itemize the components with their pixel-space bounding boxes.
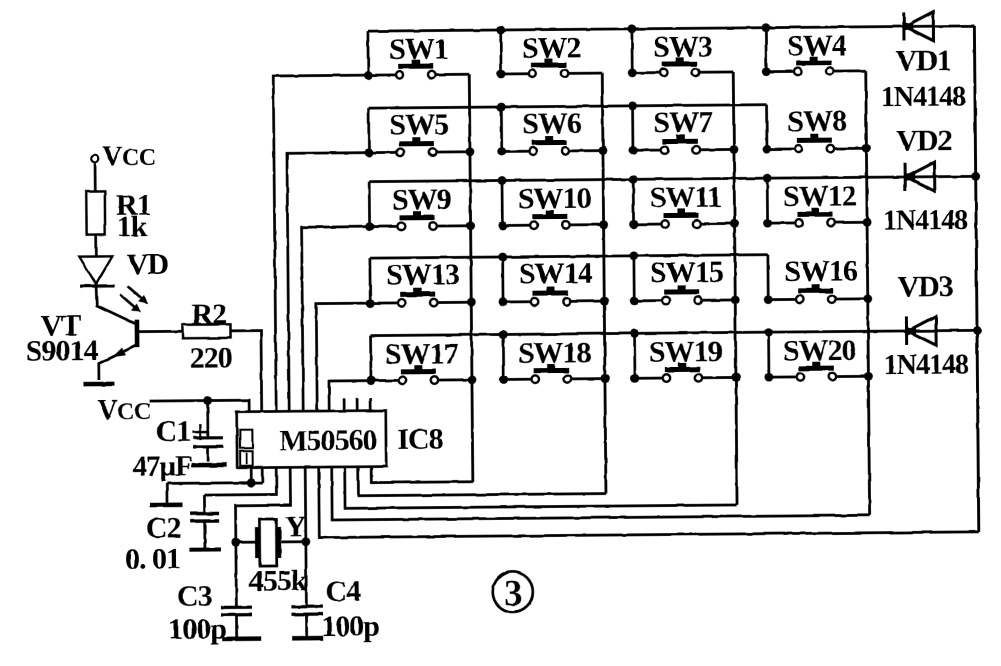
svg-text:R2: R2: [191, 298, 226, 331]
svg-text:C2: C2: [146, 511, 181, 544]
switch SW12: [766, 178, 769, 223]
svg-text:47µF: 47µF: [132, 450, 192, 483]
op-amp/encoder IC U8 body M50560: [237, 411, 386, 468]
IC8 top pin stub 1: [343, 398, 346, 410]
node Vcc/C1 junction: [203, 396, 212, 405]
svg-text:SW1: SW1: [389, 32, 448, 66]
svg-text:C1: C1: [155, 415, 190, 448]
svg-text:SW15: SW15: [650, 255, 723, 289]
svg-text:VCC: VCC: [102, 141, 156, 172]
resistor R2: [182, 324, 230, 338]
crystal Y left plate: [255, 527, 260, 558]
ground (emitter): [83, 382, 114, 387]
junction dots (matrix): [364, 71, 373, 80]
wire ground rail: [167, 481, 263, 485]
wire IC8 pin to crystal left: [235, 467, 291, 542]
svg-text:SW20: SW20: [783, 334, 856, 368]
wire column 1 vertical: [469, 74, 473, 481]
svg-text:VD3: VD3: [897, 270, 953, 303]
svg-text:SW7: SW7: [653, 105, 713, 139]
svg-text:1N4148: 1N4148: [883, 205, 968, 237]
switch SW13: [369, 258, 372, 303]
crystal Y body: [259, 519, 276, 566]
svg-text:SW8: SW8: [787, 104, 846, 138]
capacitor C2 plates: [190, 512, 219, 516]
wire row 5 select to IC8: [329, 381, 371, 411]
svg-text:SW12: SW12: [783, 179, 856, 213]
svg-text:0. 01: 0. 01: [125, 542, 180, 575]
wire R2 to IC8 pin: [230, 331, 261, 412]
svg-text:1N4148: 1N4148: [884, 349, 969, 381]
svg-text:SW16: SW16: [784, 254, 858, 288]
capacitor C3 plates: [221, 606, 252, 609]
IC8 left edge pin box 1: [240, 430, 253, 448]
svg-text:SW14: SW14: [519, 257, 593, 291]
switch SW1: [367, 31, 370, 75]
svg-text:455k: 455k: [249, 564, 308, 598]
node crystal left junction: [231, 538, 240, 547]
svg-text:3: 3: [504, 573, 522, 614]
LED emission arrow 1: [127, 286, 145, 302]
capacitor C1 lead lower: [207, 447, 210, 462]
svg-text:VD2: VD2: [896, 124, 952, 157]
diode VD2: [904, 163, 907, 191]
ground (IC8): [150, 503, 182, 508]
LED VD cathode bar: [80, 284, 114, 288]
capacitor C4 stub: [305, 614, 308, 636]
switch SW18: [502, 334, 505, 379]
wire row 4 bus: [370, 255, 768, 258]
wire R1 to VD: [94, 235, 97, 257]
switch SW17: [369, 336, 372, 381]
transistor VT emitter: [99, 345, 137, 380]
ground (C2): [189, 547, 220, 551]
ground (C1): [191, 463, 226, 468]
crystal Y right plate: [276, 527, 281, 558]
svg-text:100p: 100p: [168, 612, 226, 646]
wire ground drop: [165, 483, 168, 503]
switch SW6: [500, 107, 503, 151]
svg-text:SW18: SW18: [518, 336, 591, 370]
switch SW10: [501, 180, 504, 225]
capacitor C2 lower stub: [203, 521, 206, 549]
wire IC8 ground pin b: [261, 468, 264, 483]
capacitor C3 lead: [234, 542, 237, 607]
switch SW7: [631, 106, 634, 150]
wire column 3 vertical: [733, 72, 737, 505]
capacitor C2 lead: [203, 495, 206, 513]
wire row 2 select to IC8: [287, 153, 371, 412]
svg-text:VD: VD: [127, 248, 169, 281]
node Vcc terminal (top): [91, 155, 99, 163]
ground (C4): [292, 636, 323, 641]
IC8 pin box mark: [246, 452, 248, 464]
wire row 2 bus: [369, 105, 767, 108]
node crystal right junction: [301, 537, 310, 546]
capacitor C1 plates: [193, 436, 223, 439]
IC8 left edge pin box 2: [240, 451, 253, 466]
wire IC8 pin to column 2: [358, 465, 606, 496]
svg-text:SW6: SW6: [522, 107, 582, 141]
node ground junction: [247, 478, 256, 487]
svg-text:M50560: M50560: [279, 423, 377, 457]
wire base to R2: [139, 330, 182, 333]
wire Vcc rail to IC8: [149, 400, 249, 412]
LED VD triangle: [79, 256, 112, 284]
switch SW14: [501, 257, 504, 302]
wire row 1 bus: [368, 26, 974, 31]
svg-text:Y: Y: [285, 510, 307, 543]
wire row 1 select to IC8: [273, 75, 371, 411]
capacitor C1 lead: [206, 401, 209, 438]
wire IC8 pin to C2: [204, 467, 276, 495]
figure number 3 (circled): [493, 572, 533, 612]
transistor VT emitter arrow: [112, 347, 126, 357]
switch SW20: [767, 332, 770, 377]
wire row 3 bus: [369, 176, 975, 181]
capacitor C4 lead: [304, 542, 307, 607]
wire crystal right lead: [281, 540, 305, 543]
svg-text:SW2: SW2: [522, 31, 581, 65]
capacitor C3 stub: [235, 615, 238, 637]
switch SW9: [368, 182, 371, 227]
switch SW19: [633, 333, 636, 378]
switch SW5: [367, 108, 370, 152]
wire IC8 pin to column 1: [371, 466, 473, 483]
svg-text:SW17: SW17: [385, 337, 459, 371]
wire IC8 pin to diode bus: [319, 461, 979, 537]
wire IC8 ground pin a: [250, 468, 253, 483]
svg-text:SW3: SW3: [653, 30, 712, 64]
wire crystal left lead: [236, 541, 255, 544]
svg-text:SW4: SW4: [787, 29, 847, 63]
LED emission arrow 2: [120, 294, 138, 310]
wire diode bus (right vertical): [974, 26, 978, 532]
switch SW8: [765, 105, 768, 149]
ground (C3): [222, 636, 261, 641]
wire row 5 bus: [371, 330, 977, 335]
capacitor C4 plates: [291, 605, 322, 608]
switch SW16: [767, 255, 770, 300]
svg-text:220: 220: [190, 341, 232, 374]
IC8 top pin stub 2: [356, 398, 359, 410]
wire IC8 pin to column 3: [345, 463, 737, 508]
svg-text:VD1: VD1: [895, 44, 951, 77]
capacitor C1 polarity +: [192, 431, 208, 434]
switch SW3: [631, 29, 634, 73]
svg-text:SW13: SW13: [386, 258, 459, 292]
switch SW4: [765, 28, 768, 72]
wire IC8 pin to column 4: [332, 462, 870, 520]
switch SW2: [499, 30, 502, 74]
svg-text:SW9: SW9: [392, 183, 451, 217]
wire row 3 select to IC8: [302, 227, 372, 412]
svg-text:100p: 100p: [321, 610, 379, 644]
svg-text:1k: 1k: [117, 210, 148, 243]
wire column 4 vertical: [866, 71, 870, 515]
diode VD1: [902, 12, 905, 40]
svg-text:IC8: IC8: [397, 423, 443, 456]
switch SW15: [633, 256, 636, 301]
wire VD to VT collector: [96, 286, 136, 325]
wire row 4 select to IC8: [316, 303, 371, 411]
svg-text:C4: C4: [325, 575, 361, 608]
svg-text:SW19: SW19: [649, 335, 722, 369]
wire IC8 pin to crystal right: [304, 467, 307, 541]
svg-text:SW11: SW11: [650, 180, 721, 214]
IC8 top pin stub 3: [369, 398, 372, 410]
svg-text:1N4148: 1N4148: [881, 81, 966, 113]
svg-text:SW10: SW10: [518, 182, 591, 216]
switch SW11: [632, 179, 635, 224]
wire column 2 vertical: [602, 73, 606, 493]
wire Vcc to R1: [94, 162, 97, 191]
resistor R1: [86, 191, 105, 234]
diode VD3: [905, 317, 908, 345]
transistor VT base bar: [135, 320, 140, 348]
svg-text:VCC: VCC: [97, 395, 151, 426]
svg-text:SW5: SW5: [389, 108, 448, 142]
svg-text:C3: C3: [177, 579, 212, 612]
svg-text:S9014: S9014: [26, 334, 99, 368]
